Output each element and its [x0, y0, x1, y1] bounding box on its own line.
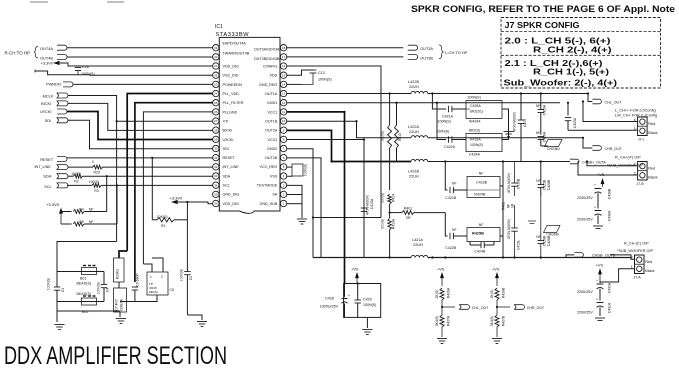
- wire VSS to R30: [287, 175, 292, 177]
- svg-text:C438A: C438A: [608, 210, 612, 221]
- svg-text:100N(S): 100N(S): [436, 130, 449, 134]
- svg-text:300(S): 300(S): [381, 219, 385, 229]
- wire PLL_FILTER bus (bold): [135, 103, 213, 282]
- wire VCC1 bus (bold): [287, 112, 345, 284]
- svg-text:OUT2B: OUT2B: [265, 156, 278, 160]
- wire C9 bottom: [120, 301, 135, 303]
- svg-text:DDX AMPLIFIER SECTION: DDX AMPLIFIER SECTION: [4, 342, 227, 368]
- svg-text:R426A: R426A: [447, 287, 451, 298]
- power +3.3V0 mid: [46, 202, 63, 224]
- svg-text:R401: R401: [404, 207, 413, 211]
- svg-text:23: 23: [214, 83, 218, 87]
- svg-text:2: 2: [631, 256, 633, 260]
- node C425B top: [540, 160, 542, 162]
- wire VCC_REG loop: [287, 166, 292, 168]
- wire VCC2 bus: [287, 140, 364, 258]
- wire conn pin2 feed: [610, 255, 635, 259]
- node RESET pullup junction: [151, 157, 153, 159]
- svg-text:SCL: SCL: [223, 184, 230, 188]
- svg-text:SDA: SDA: [223, 174, 231, 178]
- svg-text:*SUB_WOOFER O/P: *SUB_WOOFER O/P: [617, 249, 654, 253]
- svg-text:C9 680P: C9 680P: [136, 273, 140, 287]
- wire R414 to R413A: [389, 204, 391, 218]
- svg-text:32: 32: [214, 165, 218, 169]
- wire conn pin5 feed2: [568, 129, 638, 131]
- wire PLL_VDD bus (bold): [127, 94, 213, 252]
- svg-text:OUT3A: OUT3A: [420, 47, 433, 51]
- wire SA: [287, 194, 302, 196]
- ground under IC: [297, 219, 307, 224]
- svg-text:2200/25V: 2200/25V: [577, 218, 593, 222]
- svg-text:OUT1A: OUT1A: [265, 92, 278, 96]
- svg-text:C438B: C438B: [608, 188, 612, 199]
- wire OUT1A rail right: [428, 93, 588, 95]
- svg-text:100N(S): 100N(S): [180, 269, 184, 282]
- wire C2 branch: [186, 220, 188, 272]
- svg-text:5: 5: [634, 127, 636, 131]
- port CHSB-_OUTB: [560, 253, 635, 260]
- svg-text:OUT3B/DDX3B: OUT3B/DDX3B: [254, 57, 280, 61]
- capacitor C2: [180, 269, 194, 315]
- svg-text:1: 1: [631, 265, 633, 269]
- svg-text:0R: 0R: [511, 203, 515, 208]
- svg-text:C423B: C423B: [476, 181, 488, 185]
- node +3.3V0 junction: [186, 201, 188, 203]
- svg-text:NF: NF: [452, 181, 457, 185]
- svg-text:+: +: [594, 206, 596, 210]
- svg-text:PLL_VDD: PLL_VDD: [223, 92, 240, 96]
- node VCC1 into box: [357, 282, 359, 284]
- svg-text:CHSB-_OUTB: CHSB-_OUTB: [592, 254, 616, 258]
- node C405 top: [520, 92, 522, 94]
- wire LRCKI to pin29 (bold): [67, 112, 213, 140]
- wire XTI bus vertical: [116, 121, 118, 241]
- chassis ground CHGND A: [541, 140, 562, 152]
- svg-text:VSS: VSS: [270, 174, 278, 178]
- svg-text:C2: C2: [189, 276, 193, 280]
- port SCL: [44, 183, 68, 189]
- svg-text:L422B: L422B: [408, 80, 419, 84]
- svg-text:C429: C429: [363, 297, 372, 301]
- svg-text:12: 12: [282, 101, 286, 105]
- svg-text:LRCKI: LRCKI: [40, 109, 51, 114]
- capacitor C422A: [436, 130, 466, 150]
- wire B2 stub: [445, 213, 447, 236]
- svg-text:BICKI: BICKI: [41, 101, 51, 106]
- wire CONFIG strap: [313, 217, 381, 219]
- svg-text:25: 25: [214, 101, 218, 105]
- wire conn pin6 feed: [583, 102, 638, 122]
- svg-text:C7 4N7: C7 4N7: [115, 299, 119, 311]
- wire GND1 rail: [287, 102, 560, 104]
- wire CONFIG bus: [287, 66, 381, 218]
- port CHR_OUT divider: [497, 305, 545, 310]
- svg-text:INT_LINE: INT_LINE: [223, 165, 240, 169]
- svg-text:2200/25V: 2200/25V: [577, 196, 593, 200]
- resistor R1: [152, 215, 187, 228]
- svg-text:R413A: R413A: [392, 218, 396, 229]
- svg-text:100N(S): 100N(S): [47, 278, 51, 291]
- ground divider B: [492, 339, 502, 344]
- svg-text:COG(M): COG(M): [120, 299, 124, 312]
- capacitor C433A: [565, 117, 577, 130]
- port BICKI: [41, 101, 68, 106]
- svg-text:4: 4: [634, 162, 636, 166]
- port INT_LINE: [35, 165, 69, 170]
- svg-text:+VS: +VS: [437, 267, 445, 272]
- svg-text:J7-L: J7-L: [638, 138, 645, 142]
- wire C18 to VSS_DIG pin22: [35, 71, 213, 75]
- port CHSB+_OUTA: [570, 159, 606, 164]
- stub tag left of C18: [34, 70, 36, 73]
- ground C438 chain: [593, 226, 603, 229]
- node SCL pullup junction: [116, 184, 118, 186]
- wire PLLGND bus: [143, 112, 212, 264]
- svg-text:C426B: C426B: [542, 235, 546, 246]
- svg-text:22UH: 22UH: [409, 175, 419, 179]
- wire GND2 bus: [287, 149, 313, 258]
- wire C2 to ground: [187, 315, 202, 320]
- capacitor C429A (NF): [536, 94, 546, 135]
- port MCLK: [43, 93, 68, 98]
- resistor R402 NF: [502, 202, 515, 210]
- svg-text:3: 3: [634, 171, 636, 175]
- svg-text:NF: NF: [452, 228, 457, 232]
- svg-text:C5: C5: [170, 288, 174, 292]
- svg-text:+: +: [596, 279, 598, 283]
- svg-text:29: 29: [214, 138, 218, 142]
- wire CHR feed: [583, 138, 592, 148]
- svg-text:C415L: C415L: [517, 240, 521, 250]
- node CONFIG strap joint: [312, 216, 314, 218]
- svg-text:R427A: R427A: [447, 315, 451, 326]
- svg-text:VCC2: VCC2: [267, 138, 277, 142]
- svg-text:NF: NF: [479, 171, 484, 175]
- svg-text:100N(S): 100N(S): [438, 119, 451, 123]
- svg-text:OUT3B: OUT3B: [420, 57, 433, 61]
- svg-text:BICKI: BICKI: [223, 129, 233, 133]
- svg-text:6: 6: [634, 118, 636, 122]
- connector J7-B: [634, 162, 658, 186]
- port OUT4A: [40, 45, 67, 51]
- svg-text:IC1: IC1: [215, 24, 223, 30]
- svg-text:C421B: C421B: [445, 196, 457, 200]
- svg-text:CHL_OUT: CHL_OUT: [605, 100, 623, 104]
- svg-text:R1: R1: [161, 224, 166, 228]
- wire PWRDN to pin23: [73, 83, 213, 85]
- wire MCLK to XTI pin27: [68, 96, 213, 122]
- svg-text:34: 34: [214, 183, 218, 187]
- svg-text:NF: NF: [89, 220, 94, 224]
- inductor L422B: [408, 80, 428, 94]
- node rail joints: [330, 92, 589, 258]
- ground snubber A: [504, 132, 514, 137]
- svg-text:16: 16: [282, 64, 286, 68]
- svg-text:22UH: 22UH: [409, 130, 419, 134]
- wire X1 top: [143, 264, 152, 272]
- node SDA pullup junction: [106, 175, 108, 177]
- wire RESET to R1: [151, 158, 153, 220]
- svg-text:13: 13: [282, 92, 286, 96]
- wire RESET to pin31: [67, 157, 213, 159]
- svg-text:C433A: C433A: [573, 117, 577, 128]
- resistor R29: [92, 160, 103, 175]
- svg-text:VDD_DIG: VDD_DIG: [223, 202, 240, 206]
- label L-CH TO HP: [439, 45, 468, 59]
- node R401 tap: [389, 212, 391, 214]
- svg-text:CHSB+_OUTA: CHSB+_OUTA: [582, 160, 606, 164]
- svg-text:L_CH+/- FOR 2.0Config: L_CH+/- FOR 2.0Config: [615, 109, 656, 113]
- svg-text:C424A: C424A: [469, 153, 481, 157]
- svg-text:L421B: L421B: [408, 170, 419, 174]
- port SDA: [43, 174, 68, 179]
- wire A2 out: [502, 130, 509, 140]
- ground right of cluster: [197, 322, 207, 327]
- resistor R427B: [490, 315, 505, 337]
- svg-text:2200/25V: 2200/25V: [577, 311, 593, 315]
- wire OUT4B to pin20: [67, 56, 213, 58]
- port LRCKI: [40, 109, 67, 114]
- label R-CH TO HP: [5, 47, 39, 58]
- snubber box A1: [466, 95, 502, 123]
- power +VS right: [596, 263, 604, 281]
- svg-text:R29: R29: [94, 171, 100, 175]
- vertical cap C415B: [507, 162, 521, 197]
- resistor R426A: [435, 287, 450, 315]
- svg-text:C428B: C428B: [547, 235, 551, 246]
- wire XTI bus to cluster: [57, 242, 117, 272]
- ground C430 chain: [595, 318, 605, 321]
- svg-text:21: 21: [214, 64, 218, 68]
- capacitor C431A: [577, 298, 612, 316]
- svg-text:470N-M(63V): 470N-M(63V): [507, 173, 511, 193]
- svg-text:100N(S): 100N(S): [363, 303, 376, 307]
- svg-text:C428B: C428B: [547, 179, 551, 190]
- port OUT3B: [408, 54, 434, 60]
- wire R6 to C7: [118, 282, 120, 288]
- svg-text:17: 17: [282, 55, 286, 59]
- svg-text:C13: C13: [318, 71, 325, 75]
- svg-text:100(S): 100(S): [71, 172, 81, 176]
- svg-text:+VS: +VS: [492, 267, 500, 272]
- wire CHL feed: [588, 94, 592, 102]
- svg-text:L422A: L422A: [408, 125, 419, 129]
- J7 SPKR CONFIG table: [501, 18, 661, 89]
- svg-text:2K(S): 2K(S): [435, 290, 439, 299]
- svg-text:26: 26: [214, 110, 218, 114]
- svg-text:NF: NF: [536, 235, 540, 239]
- top edge cropped marks: [30, 1, 124, 3]
- svg-text:R_CH 1(-), 5(+): R_CH 1(-), 5(+): [533, 67, 609, 77]
- svg-text:36: 36: [214, 202, 218, 206]
- svg-text:11: 11: [282, 110, 285, 114]
- svg-text:28: 28: [214, 128, 218, 132]
- node CHSB junction: [586, 160, 588, 162]
- node R423 top: [389, 92, 391, 94]
- svg-text:31: 31: [214, 156, 218, 160]
- resistor R2: [71, 172, 82, 184]
- svg-text:+3.3V0: +3.3V0: [46, 202, 60, 207]
- wire A1 out: [502, 109, 509, 130]
- svg-text:R_CH-(2’) O/P: R_CH-(2’) O/P: [624, 241, 649, 245]
- port CHL_OUT: [592, 99, 622, 104]
- wire box to ground: [366, 317, 368, 328]
- svg-text:L421A: L421A: [412, 238, 423, 242]
- svg-text:3K4(S): 3K4(S): [435, 316, 439, 327]
- capacitor C415A: [361, 195, 374, 215]
- svg-text:C4: C4: [106, 288, 110, 292]
- svg-text:1000U/25V: 1000U/25V: [320, 305, 339, 309]
- svg-text:R415: R415: [398, 133, 402, 141]
- svg-text:30: 30: [214, 147, 218, 151]
- resistor R401: [390, 207, 446, 221]
- svg-text:SPKR CONFIG, REFER TO THE PAGE: SPKR CONFIG, REFER TO THE PAGE 6 OF Appl…: [411, 4, 675, 14]
- svg-text:C415A: C415A: [370, 198, 374, 209]
- wire +3.3V0 down to R1: [186, 202, 188, 220]
- svg-text:PLL_FILTER: PLL_FILTER: [223, 101, 244, 105]
- svg-text:22UH: 22UH: [409, 85, 419, 89]
- svg-text:R425A: R425A: [470, 138, 481, 142]
- svg-text:6R2(S1): 6R2(S1): [470, 109, 483, 113]
- wire TESTMODE SA to ground: [287, 185, 302, 218]
- wire R3 to pin34: [101, 184, 213, 186]
- svg-text:300(S): 300(S): [381, 193, 385, 203]
- svg-text:LRCKI: LRCKI: [223, 138, 234, 142]
- wire cluster top rail: [57, 271, 104, 273]
- capacitor C429: [355, 284, 377, 318]
- svg-text:R23K2: R23K2: [116, 269, 120, 279]
- svg-text:C428: C428: [325, 297, 334, 301]
- svg-text:C18: C18: [82, 65, 89, 69]
- svg-text:RESET: RESET: [223, 156, 236, 160]
- capacitor C421B: [445, 181, 467, 200]
- svg-text:GND1: GND1: [267, 101, 277, 105]
- node divider A tap: [441, 306, 443, 308]
- connector J7-L: [634, 117, 658, 142]
- wire R5 to SCL: [84, 223, 117, 225]
- capacitor C422B: [445, 228, 467, 250]
- svg-text:+: +: [596, 298, 598, 302]
- capacitor C428: [320, 284, 350, 318]
- port OUT3A: [408, 45, 434, 51]
- svg-text:R4: R4: [79, 208, 84, 212]
- wire OUT2A rail right: [428, 161, 570, 163]
- resonator X1 box: [147, 272, 174, 295]
- wire R29 to pin32: [102, 166, 213, 168]
- wire OUT1B rail right: [428, 137, 583, 139]
- svg-text:CHGND: CHGND: [546, 233, 559, 237]
- svg-text:100N(S): 100N(S): [318, 78, 332, 82]
- chassis ground CHGND B: [544, 226, 561, 237]
- svg-text:R427B: R427B: [502, 315, 506, 326]
- svg-text:MR(S): MR(S): [149, 290, 158, 294]
- resistor R30 box: [292, 164, 307, 177]
- node rail B2 bottom joints: [502, 256, 542, 258]
- svg-text:IN4244: IN4244: [469, 120, 481, 124]
- svg-text:INT_LINE: INT_LINE: [35, 165, 52, 169]
- capacitor C18: [75, 65, 95, 76]
- node A2 stub: [436, 102, 438, 104]
- svg-text:R3: R3: [94, 189, 99, 193]
- wire B2 vertical bus: [502, 162, 504, 258]
- wire conn pin4 feed: [587, 162, 638, 166]
- wire OUT1A rail: [287, 93, 411, 95]
- svg-text:NF: NF: [536, 104, 540, 108]
- svg-text:Red: Red: [648, 167, 655, 171]
- svg-text:VDD_DIG: VDD_DIG: [223, 64, 240, 68]
- svg-text:C425B: C425B: [542, 179, 546, 190]
- svg-text:22: 22: [214, 73, 218, 77]
- capacitor C425B (NF): [536, 162, 551, 197]
- svg-text:XTI: XTI: [223, 119, 229, 123]
- svg-text:Black: Black: [648, 131, 657, 135]
- svg-text:R402: R402: [502, 202, 506, 210]
- svg-text:35: 35: [214, 193, 218, 197]
- resistor R5 (NF): [61, 220, 94, 226]
- svg-text:+3.3V0: +3.3V0: [170, 196, 184, 201]
- svg-text:C426A: C426A: [542, 131, 546, 142]
- node R415 top: [395, 102, 397, 104]
- svg-text:R_CH+(4’) O/P: R_CH+(4’) O/P: [615, 156, 641, 160]
- svg-text:3K4(S): 3K4(S): [490, 316, 494, 327]
- svg-text:14: 14: [282, 83, 286, 87]
- svg-text:VCC_REG: VCC_REG: [259, 165, 277, 169]
- svg-text:27: 27: [214, 119, 218, 123]
- wire X1 bottom: [135, 295, 157, 302]
- svg-text:J7 SPKR CONFIG: J7 SPKR CONFIG: [505, 20, 580, 30]
- wire GND_SUB: [287, 203, 302, 205]
- svg-text:L/R_CH+ FOR 2.1Config: L/R_CH+ FOR 2.1Config: [615, 113, 657, 117]
- svg-text:Sub_Woofer: 2(-), 4(+): Sub_Woofer: 2(-), 4(+): [504, 77, 618, 87]
- svg-text:SDI: SDI: [45, 118, 52, 123]
- svg-text:TWARN/OUT4B: TWARN/OUT4B: [223, 51, 250, 55]
- ground under supply box: [362, 330, 372, 335]
- svg-text:10: 10: [282, 119, 286, 123]
- svg-text:+VS: +VS: [596, 263, 604, 268]
- wire PLL_VDD bus elbow: [119, 251, 127, 258]
- svg-text:C3: C3: [61, 288, 65, 292]
- wire R4 to SDA: [84, 211, 107, 213]
- svg-text:C430A: C430A: [608, 282, 612, 293]
- wire R2 to pin33: [82, 175, 212, 177]
- svg-text:SDI: SDI: [223, 147, 229, 151]
- wire cluster rail low: [57, 310, 120, 312]
- port PWRDN: [46, 81, 73, 87]
- svg-text:100(S): 100(S): [89, 180, 99, 184]
- wire OUT3B to tag: [287, 56, 404, 58]
- svg-text:R5: R5: [79, 220, 84, 224]
- wire A1 stub: [432, 94, 446, 110]
- svg-text:CHL_OUT: CHL_OUT: [472, 306, 490, 310]
- svg-text:NF: NF: [479, 223, 484, 227]
- IC1 pins: [213, 42, 287, 207]
- svg-text:6R2(S): 6R2(S): [469, 128, 480, 132]
- svg-text:Red: Red: [648, 122, 655, 126]
- svg-text:CHR_OUT: CHR_OUT: [527, 306, 545, 310]
- wire SCL pullup vertical: [116, 185, 118, 224]
- wire conn pin3 feed: [578, 162, 638, 176]
- svg-text:PLLGND: PLLGND: [223, 110, 238, 114]
- wire bottom rail right: [428, 257, 631, 259]
- capacitor C426B (NF): [536, 196, 551, 258]
- svg-text:2: 2: [161, 275, 163, 279]
- svg-text:C431A: C431A: [608, 302, 612, 313]
- svg-text:B01: B01: [80, 277, 86, 281]
- svg-text:STA333BW: STA333BW: [216, 32, 250, 38]
- port CHL_OUT divider: [442, 305, 489, 310]
- svg-text:C424B: C424B: [474, 249, 486, 253]
- svg-text:330(S): 330(S): [380, 131, 384, 141]
